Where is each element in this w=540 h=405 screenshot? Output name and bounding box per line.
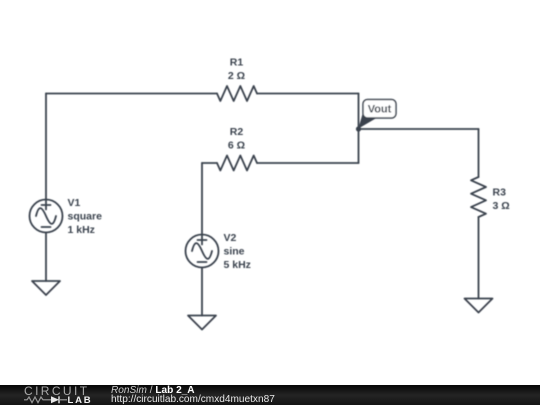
svg-text:LAB: LAB	[68, 395, 93, 405]
svg-text:R1: R1	[230, 57, 244, 69]
svg-text:V2: V2	[224, 232, 237, 244]
svg-text:6 Ω: 6 Ω	[228, 140, 245, 152]
svg-text:3 Ω: 3 Ω	[493, 200, 510, 212]
voltage source V2	[186, 235, 219, 268]
svg-text:sine: sine	[224, 246, 245, 258]
wire	[257, 162, 359, 164]
svg-text:V1: V1	[68, 197, 81, 209]
wire	[45, 94, 47, 200]
wire	[359, 128, 479, 130]
logo resistor squiggle	[24, 397, 51, 403]
svg-text:http://circuitlab.com/cmxd4mue: http://circuitlab.com/cmxd4muetxn87	[111, 394, 275, 405]
logo diode	[51, 396, 59, 403]
svg-text:1 kHz: 1 kHz	[68, 224, 95, 236]
wire	[478, 129, 480, 177]
node Vout callout	[358, 100, 396, 129]
ground	[32, 281, 60, 295]
ground	[188, 316, 216, 330]
node Vout junction	[356, 126, 361, 131]
wire	[358, 94, 360, 164]
svg-text:2 Ω: 2 Ω	[228, 70, 245, 82]
wire	[478, 217, 480, 299]
footer bar	[0, 385, 540, 405]
svg-text:square: square	[68, 211, 103, 223]
wire	[201, 163, 203, 235]
wire	[201, 268, 203, 316]
svg-text:R2: R2	[230, 126, 244, 138]
voltage source V1	[30, 200, 63, 233]
ground	[465, 299, 493, 313]
wire	[202, 162, 217, 164]
svg-text:Vout: Vout	[368, 104, 392, 116]
resistor R3	[471, 177, 486, 217]
wire	[46, 93, 217, 95]
resistor R1	[217, 86, 257, 101]
wire	[257, 93, 359, 95]
svg-text:R3: R3	[493, 187, 507, 199]
wire	[45, 233, 47, 282]
svg-text:5 kHz: 5 kHz	[224, 259, 251, 271]
resistor R2	[217, 156, 257, 171]
